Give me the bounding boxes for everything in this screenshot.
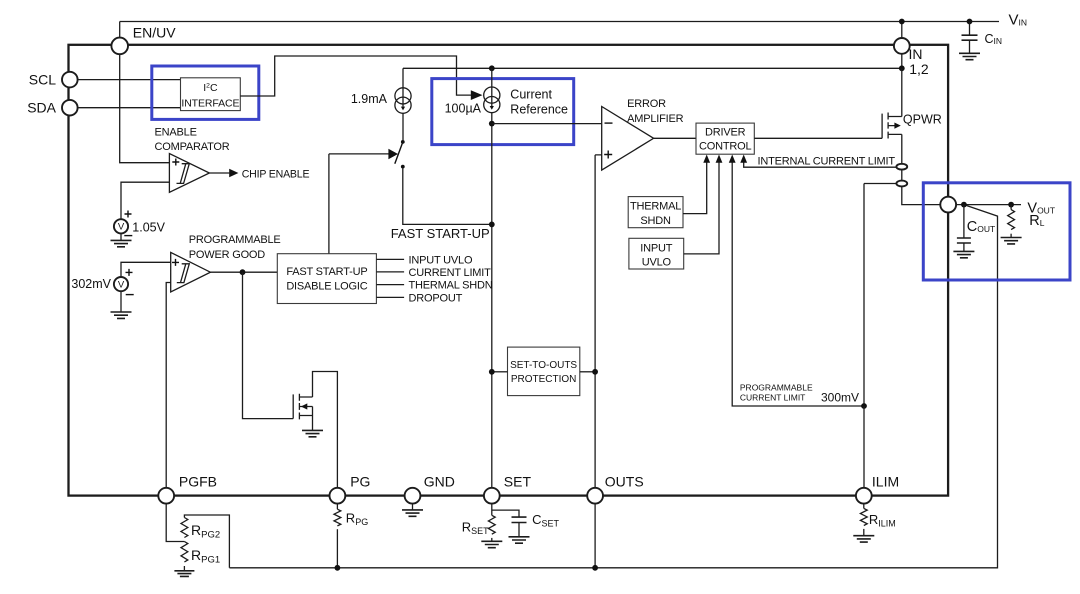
svg-text:300mV: 300mV — [821, 391, 859, 405]
op-amp error amplifier — [602, 98, 684, 170]
node FAST START-UP — [489, 222, 495, 228]
svg-text:100µA: 100µA — [445, 102, 482, 116]
svg-text:PG: PG — [350, 474, 370, 490]
node junction 300mV — [861, 403, 867, 409]
pin ILIM — [856, 488, 872, 504]
ground (CIN) — [959, 53, 980, 59]
node junction IN rail / QPWR drain — [899, 65, 905, 71]
svg-text:QPWR: QPWR — [903, 112, 942, 126]
voltage source 1.05V — [114, 182, 169, 240]
transistor QPWR MOSFET — [882, 68, 942, 204]
ground (CSET) — [509, 537, 530, 543]
svg-text:DISABLE LOGIC: DISABLE LOGIC — [286, 280, 367, 292]
sense element upper (internal current limit) — [896, 164, 907, 170]
wire EN/UV stub to VIN rail — [119, 22, 121, 38]
current source 1.9mA — [351, 68, 411, 140]
node junction SET line / error amp minus — [489, 121, 495, 127]
resistor RPG — [334, 504, 368, 568]
wire protection block to OUTS line — [580, 371, 595, 373]
svg-text:THERMAL: THERMAL — [630, 201, 681, 213]
svg-text:ILIM: ILIM — [872, 474, 899, 490]
wire disable logic output CURRENT LIMIT — [376, 271, 404, 273]
wire power good minus input to PGFB — [166, 283, 171, 488]
pin PGFB — [158, 488, 174, 504]
node junction VIN/CIN — [967, 19, 973, 25]
pin EN/UV — [111, 38, 128, 55]
pin OUT — [940, 197, 956, 213]
pin IN — [894, 38, 910, 54]
node junction PG gate — [240, 269, 246, 275]
wire VIN rail — [120, 21, 999, 23]
svg-text:CONTROL: CONTROL — [699, 141, 751, 153]
svg-text:EN/UV: EN/UV — [133, 24, 176, 40]
svg-text:THERMAL SHDN: THERMAL SHDN — [409, 280, 493, 292]
pin OUTS — [587, 488, 603, 504]
block FAST START-UP DISABLE LOGIC — [277, 254, 376, 304]
ground (COUT) — [953, 251, 974, 257]
wire IN rail (1,2 net) — [403, 67, 902, 69]
svg-text:FAST START-UP: FAST START-UP — [391, 226, 490, 241]
wire OUTS pin down to feedback line — [594, 504, 596, 568]
blue annotation box output network — [923, 183, 1070, 280]
svg-text:FAST START-UP: FAST START-UP — [286, 266, 367, 278]
resistor RSET — [462, 515, 495, 541]
resistor RPG2 — [181, 515, 229, 568]
wire input uvlo to driver control — [684, 162, 719, 254]
capacitor COUT — [957, 205, 995, 252]
wire chip enable output — [209, 172, 229, 174]
wire IN pin to IN rail — [901, 54, 903, 69]
resistor RL — [1008, 205, 1015, 238]
svg-text:COMPARATOR: COMPARATOR — [155, 141, 230, 153]
svg-text:CHIP ENABLE: CHIP ENABLE — [242, 168, 310, 180]
wire disable logic output INPUT UVLO — [376, 258, 404, 260]
wire OUT to VOUT — [956, 204, 1021, 206]
svg-text:POWER GOOD: POWER GOOD — [189, 249, 265, 261]
wire SCL to I2C interface — [78, 79, 181, 81]
svg-text:DROPOUT: DROPOUT — [409, 292, 463, 304]
wire driver control to QPWR gate — [754, 137, 882, 139]
current source 100uA (current reference) — [445, 68, 568, 488]
ground (GND pin) — [412, 504, 414, 510]
svg-text:PROGRAMMABLE: PROGRAMMABLE — [189, 234, 281, 246]
wire power good output to disable logic — [210, 271, 277, 273]
svg-text:V: V — [118, 222, 125, 233]
wire ILIM sense tap — [864, 184, 896, 407]
pin SCL — [62, 72, 78, 88]
block THERMAL SHDN — [628, 197, 683, 228]
wire switch control to disable logic — [328, 154, 330, 254]
node junction OUTS/protection — [592, 369, 598, 375]
wire error amp plus input from OUTS — [595, 155, 602, 488]
capacitor CIN — [962, 22, 1003, 54]
arrow into current reference — [471, 90, 483, 100]
node junction IN rail / 100uA — [489, 65, 495, 71]
ground (RPG1) — [183, 566, 185, 571]
node junction OUTS/feedback — [592, 565, 598, 571]
pin SET — [484, 488, 500, 504]
svg-text:INPUT: INPUT — [640, 242, 672, 254]
pin GND — [405, 488, 421, 504]
blue annotation box I2C — [152, 66, 259, 119]
svg-text:1,2: 1,2 — [909, 61, 929, 77]
svg-text:1.9mA: 1.9mA — [351, 92, 388, 106]
wire thermal shdn to driver control — [683, 162, 707, 214]
svg-text:DRIVER: DRIVER — [705, 127, 746, 139]
switch fast start-up — [395, 140, 405, 169]
resistor RPG1 — [181, 542, 220, 566]
svg-text:SHDN: SHDN — [640, 215, 671, 227]
svg-text:INTERNAL CURRENT LIMIT: INTERNAL CURRENT LIMIT — [758, 155, 896, 167]
svg-text:Reference: Reference — [510, 102, 568, 116]
wire I2C output to 100uA reference — [240, 56, 471, 96]
svg-text:PGFB: PGFB — [179, 474, 217, 490]
wire programmable current limit to driver control — [732, 162, 864, 407]
svg-text:ERROR: ERROR — [627, 98, 666, 110]
resistor RILIM — [860, 504, 895, 536]
capacitor CSET — [492, 510, 560, 536]
svg-text:PROGRAMMABLE: PROGRAMMABLE — [740, 382, 813, 392]
node junction SET/protection — [489, 369, 495, 375]
wire EN/UV to enable comparator — [120, 54, 170, 163]
wire PGFB to divider — [166, 504, 184, 542]
ground (RL) — [1001, 238, 1022, 244]
block SET-TO-OUTS PROTECTION — [508, 347, 580, 396]
svg-text:INTERFACE: INTERFACE — [181, 97, 239, 109]
svg-text:SET: SET — [504, 474, 532, 490]
svg-text:PROTECTION: PROTECTION — [511, 374, 577, 385]
svg-text:SET-TO-OUTS: SET-TO-OUTS — [510, 360, 577, 371]
transistor PG pull-down MOSFET — [293, 372, 337, 488]
wire SET line to protection block — [492, 371, 508, 373]
wire bottom feedback line to VOUT — [229, 205, 997, 568]
svg-text:302mV: 302mV — [71, 277, 111, 291]
svg-text:INPUT UVLO: INPUT UVLO — [409, 254, 473, 266]
svg-text:I2C: I2C — [203, 82, 218, 94]
wire internal current limit to driver control — [744, 162, 897, 168]
block I2C INTERFACE — [181, 78, 241, 111]
svg-text:OUTS: OUTS — [605, 474, 644, 490]
svg-text:ENABLE: ENABLE — [155, 127, 197, 139]
pin PG — [330, 488, 346, 504]
node junction VIN/IN — [899, 19, 905, 25]
sense element lower (programmable current limit) — [896, 181, 907, 187]
svg-text:UVLO: UVLO — [642, 257, 672, 269]
ground (302mV) — [111, 312, 132, 318]
node junction RPG/feedback — [335, 565, 341, 571]
voltage source 302mV — [71, 262, 170, 312]
svg-text:GND: GND — [424, 474, 455, 490]
IC boundary box — [69, 45, 949, 496]
wire PG gate net — [243, 272, 294, 418]
wire SET pin to RSET/CSET — [491, 504, 493, 516]
svg-text:SDA: SDA — [27, 100, 56, 116]
wire disable logic output DROPOUT — [376, 296, 404, 298]
op-amp enable comparator — [155, 127, 230, 193]
ground (PG MOSFET) — [302, 430, 323, 436]
op-amp programmable power good comparator — [171, 234, 281, 292]
wire chip-enable arrow into switch — [329, 153, 389, 155]
pin SDA — [62, 100, 78, 116]
ground (RILIM) — [853, 536, 874, 542]
svg-text:IN: IN — [909, 46, 923, 62]
ground (RSET) — [481, 541, 502, 547]
svg-text:1.05V: 1.05V — [132, 220, 165, 234]
svg-text:AMPLIFIER: AMPLIFIER — [627, 113, 684, 125]
ground (1.05V) — [111, 240, 132, 246]
node junction RL — [1008, 202, 1014, 208]
block INPUT UVLO — [629, 238, 684, 269]
wire 300mV node to ILIM pin — [863, 406, 865, 488]
svg-text:V: V — [118, 279, 125, 290]
wire disable logic output THERMAL SHDN — [376, 284, 404, 286]
svg-text:CURRENT LIMIT: CURRENT LIMIT — [740, 392, 806, 402]
wire error amp output to driver control — [654, 137, 696, 139]
wire SDA to I2C interface — [78, 107, 181, 109]
svg-text:SCL: SCL — [29, 72, 56, 88]
node junction COUT — [961, 202, 967, 208]
block DRIVER CONTROL — [696, 123, 754, 154]
wire IN pin stub to VIN rail — [901, 22, 903, 39]
blue annotation box Current Reference — [432, 79, 574, 145]
wire current reference to error amplifier minus input — [492, 123, 602, 125]
svg-text:Current: Current — [510, 87, 552, 101]
wire switch down to fast start-up node — [403, 169, 492, 225]
svg-text:CURRENT LIMIT: CURRENT LIMIT — [409, 267, 492, 279]
